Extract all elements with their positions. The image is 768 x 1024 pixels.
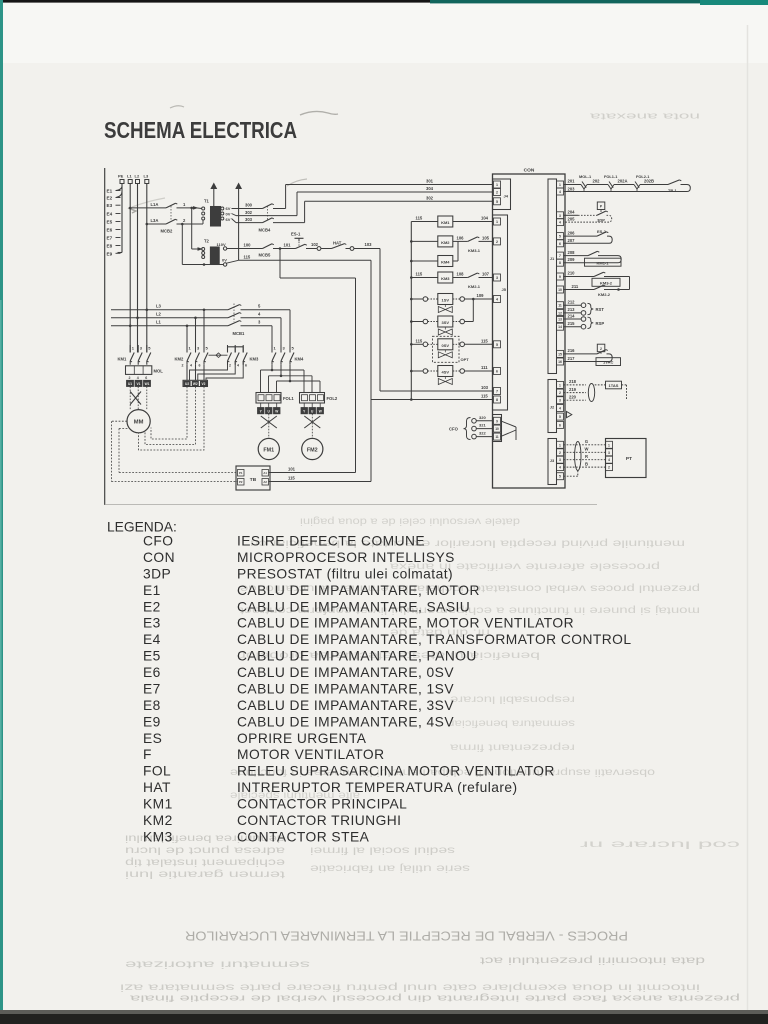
connector J5 — [493, 215, 508, 410]
svg-text:E4: E4 — [143, 632, 161, 647]
wire left border bus — [104, 168, 106, 505]
svg-text:2: 2 — [559, 391, 561, 395]
svg-text:TR-1: TR-1 — [668, 188, 677, 193]
svg-text:sediul social al firmei: sediul social al firmei — [310, 845, 455, 856]
fan cable cross E3 FM2 — [304, 416, 320, 428]
svg-text:P1: P1 — [239, 471, 243, 475]
svg-text:303: 303 — [245, 217, 253, 222]
svg-text:RELEU SUPRASARCINA MOTOR VENTI: RELEU SUPRASARCINA MOTOR VENTILATOR — [237, 764, 555, 779]
svg-text:W: W — [275, 410, 278, 414]
interlock KM2-KM3 — [209, 354, 228, 356]
svg-text:CABLU DE IMPAMANTARE, 4SV: CABLU DE IMPAMANTARE, 4SV — [237, 714, 454, 729]
breaker MCB1 pole L3 — [228, 305, 240, 310]
breaker MCB4 pole 2 — [263, 218, 273, 223]
svg-text:1: 1 — [559, 383, 561, 387]
svg-text:207: 207 — [568, 238, 576, 243]
contactor KM1 — [129, 345, 131, 353]
wire L1A — [129, 207, 132, 210]
svg-text:CABLU DE IMPAMANTARE, MOTOR: CABLU DE IMPAMANTARE, MOTOR — [237, 583, 480, 598]
connector J1 — [548, 179, 557, 374]
svg-text:INTRERUPTOR TEMPERATURA (reful: INTRERUPTOR TEMPERATURA (refulare) — [237, 780, 518, 795]
svg-text:3DP: 3DP — [597, 217, 605, 222]
wire 304 to CON J4 pin 2 — [296, 192, 298, 216]
svg-text:R: R — [585, 454, 588, 459]
contact KM2-1 — [468, 273, 478, 278]
wire L3 power row — [111, 309, 228, 311]
svg-text:MOL-1: MOL-1 — [579, 174, 592, 179]
svg-text:KM2: KM2 — [441, 240, 450, 245]
svg-text:8: 8 — [559, 261, 561, 265]
svg-text:KM3: KM3 — [250, 357, 260, 362]
svg-text:MCB5: MCB5 — [259, 253, 272, 258]
svg-text:4: 4 — [559, 407, 561, 411]
wire T2 primary feed 2 — [181, 223, 184, 226]
svg-text:U1: U1 — [128, 382, 132, 386]
svg-text:intocmit in doua exemplare cat: intocmit in doua exemplare cate unul pen… — [120, 982, 700, 993]
svg-text:B: B — [585, 462, 588, 467]
svg-text:HAT: HAT — [143, 780, 171, 795]
svg-text:201: 201 — [568, 179, 576, 184]
svg-text:6: 6 — [199, 363, 201, 367]
svg-text:L2: L2 — [135, 174, 140, 179]
svg-text:210: 210 — [568, 271, 576, 276]
star bridge KM3 — [228, 347, 244, 353]
svg-text:E3: E3 — [107, 203, 113, 208]
scanner left teal strip — [0, 0, 3, 1024]
wire 302 to CON J4 pin 5 — [304, 201, 306, 222]
svg-text:reprezentant firma: reprezentant firma — [450, 741, 575, 753]
wire bottom routing line — [105, 504, 597, 506]
wire 101 routing down to TB — [279, 249, 281, 279]
svg-text:106: 106 — [457, 236, 465, 241]
svg-text:9: 9 — [496, 419, 498, 423]
svg-text:KM1-1: KM1-1 — [596, 260, 609, 265]
connector CFO pins — [493, 415, 502, 442]
svg-text:9: 9 — [559, 275, 561, 279]
wire 111 to CON — [465, 370, 494, 372]
svg-text:E4: E4 — [107, 212, 113, 217]
wire CFO merge — [501, 421, 517, 427]
svg-text:202B: 202B — [644, 179, 654, 184]
svg-text:CABLU DE IMPAMANTARE, 0SV: CABLU DE IMPAMANTARE, 0SV — [237, 665, 454, 680]
breaker MCB2 pole 1 — [166, 203, 176, 208]
overload relay FOL1 — [256, 393, 281, 404]
terminal block U2 W2 V2 — [183, 380, 208, 386]
delta connection dashed wires — [151, 387, 187, 440]
svg-text:1: 1 — [496, 183, 498, 187]
svg-text:PT: PT — [626, 456, 632, 462]
svg-text:0V: 0V — [226, 212, 231, 217]
node PE terminal — [120, 180, 124, 184]
svg-text:CFO: CFO — [143, 534, 173, 549]
wire 109 to CON — [465, 298, 494, 300]
ground symbol 0V line — [238, 186, 240, 261]
wire 302 crossover — [232, 214, 237, 216]
svg-text:KM4: KM4 — [441, 260, 450, 265]
svg-text:208: 208 — [568, 250, 576, 255]
node 102 — [306, 248, 317, 250]
svg-text:115: 115 — [416, 216, 423, 221]
svg-text:6V: 6V — [226, 217, 231, 222]
svg-text:5: 5 — [559, 475, 561, 479]
contact TR-1 — [640, 184, 668, 186]
wire L3 vertical — [146, 184, 148, 353]
svg-text:E9: E9 — [143, 714, 161, 729]
svg-text:215: 215 — [568, 321, 576, 326]
svg-text:termen garantie luni: termen garantie luni — [125, 869, 285, 880]
svg-text:CABLU DE IMPAMANTARE, 3SV: CABLU DE IMPAMANTARE, 3SV — [237, 698, 454, 713]
svg-text:E1: E1 — [143, 583, 161, 598]
svg-text:1VAC: 1VAC — [603, 360, 613, 365]
svg-text:10: 10 — [495, 427, 499, 431]
wire L2 power row — [111, 317, 228, 319]
svg-text:206: 206 — [568, 230, 576, 235]
svg-text:15: 15 — [558, 352, 562, 356]
diode J2 pin5 — [567, 412, 572, 418]
wire 301 to CON J4 pin 1 — [262, 215, 297, 217]
wire T1 primary link — [197, 207, 202, 210]
svg-text:adresa punct de lucru: adresa punct de lucru — [125, 845, 285, 856]
relay coil KM4 — [411, 260, 438, 262]
temperature probe PT wiring — [564, 444, 606, 446]
svg-text:16: 16 — [558, 360, 562, 364]
svg-text:TB: TB — [250, 477, 257, 483]
output CFO — [472, 419, 477, 424]
svg-text:prezenta anexa face parte inte: prezenta anexa face parte integranta din… — [129, 993, 740, 1004]
overload relay MOL — [126, 366, 152, 375]
svg-text:211: 211 — [572, 284, 579, 289]
node L3 terminal — [145, 180, 149, 184]
svg-text:semnaturi autorizate: semnaturi autorizate — [125, 958, 310, 970]
breaker MCB4 pole 1 — [263, 204, 273, 209]
svg-text:PRESOSTAT (filtru ulei colmata: PRESOSTAT (filtru ulei colmatat) — [237, 566, 453, 581]
wire KM2 pole bottoms to terminals — [186, 365, 188, 381]
wire 115 TB to routing — [269, 481, 372, 483]
svg-text:RSP: RSP — [596, 321, 605, 326]
svg-text:205: 205 — [568, 217, 576, 222]
svg-text:MCB1: MCB1 — [233, 331, 246, 336]
svg-text:J4: J4 — [504, 194, 509, 199]
svg-text:IESIRE DEFECTE COMUNE: IESIRE DEFECTE COMUNE — [237, 534, 425, 549]
node L1 terminal — [128, 180, 132, 184]
svg-text:4SV: 4SV — [442, 370, 450, 375]
svg-text:E3: E3 — [143, 616, 161, 631]
motor MM — [127, 410, 150, 433]
node 101 — [279, 247, 282, 250]
svg-text:1: 1 — [559, 443, 561, 447]
svg-text:302: 302 — [426, 196, 434, 201]
svg-text:serie utilaj an fabricatie: serie utilaj an fabricatie — [309, 863, 470, 874]
svg-text:7: 7 — [559, 254, 561, 258]
svg-text:204: 204 — [568, 210, 576, 215]
relay coil KM2 — [411, 240, 438, 242]
svg-text:E7: E7 — [107, 236, 113, 241]
svg-text:3SV: 3SV — [442, 320, 450, 325]
scanner bottom bar — [0, 1013, 768, 1024]
svg-text:218: 218 — [569, 379, 577, 384]
wire 203 return — [564, 185, 691, 192]
svg-text:KM3: KM3 — [143, 829, 173, 844]
svg-text:CON: CON — [524, 167, 535, 173]
wire PE down — [121, 184, 123, 253]
svg-text:11: 11 — [495, 435, 499, 439]
svg-text:108: 108 — [457, 272, 465, 277]
svg-text:216: 216 — [568, 348, 576, 353]
wire E2 hook to PE — [116, 192, 122, 198]
svg-text:3DP: 3DP — [143, 566, 171, 581]
svg-text:U2: U2 — [185, 382, 189, 386]
wire 303 — [236, 222, 263, 224]
wire MCB1 out 4 down to KM4 — [280, 318, 282, 353]
svg-text:SCHEMA ELECTRICA: SCHEMA ELECTRICA — [104, 117, 297, 143]
breaker MCB1 pole L2 — [228, 313, 240, 318]
svg-text:321: 321 — [479, 423, 486, 428]
svg-text:7: 7 — [496, 390, 498, 394]
svg-text:320: 320 — [479, 415, 486, 420]
svg-text:6V: 6V — [226, 206, 231, 211]
svg-text:111: 111 — [481, 365, 488, 370]
svg-text:OPRIRE URGENTA: OPRIRE URGENTA — [237, 731, 367, 746]
svg-text:E8: E8 — [143, 698, 161, 713]
svg-text:100: 100 — [244, 243, 252, 248]
svg-text:responsabil lucrare: responsabil lucrare — [450, 693, 575, 705]
svg-text:FOL2: FOL2 — [327, 396, 338, 401]
wire 3SV up to 109 — [465, 321, 474, 323]
svg-text:115: 115 — [288, 476, 295, 481]
svg-text:W: W — [585, 447, 589, 452]
terminal block TB — [236, 466, 270, 490]
terminals Y U W fan motor 2 — [301, 408, 308, 414]
svg-text:CFO: CFO — [449, 427, 459, 432]
svg-text:E6: E6 — [143, 665, 161, 680]
wire 300 — [232, 208, 263, 210]
svg-text:220: 220 — [569, 395, 577, 400]
connector J4 — [493, 179, 511, 210]
svg-text:2: 2 — [496, 240, 498, 244]
svg-text:E2: E2 — [143, 599, 161, 614]
svg-text:V1: V1 — [137, 382, 141, 386]
svg-text:322: 322 — [479, 431, 486, 436]
svg-text:KM3: KM3 — [441, 276, 450, 281]
svg-text:115: 115 — [481, 339, 488, 344]
svg-text:12: 12 — [558, 311, 562, 315]
svg-text:W1: W1 — [145, 382, 150, 386]
optional dashed box OPT — [433, 336, 460, 362]
svg-text:101: 101 — [284, 242, 292, 247]
svg-text:FOL: FOL — [143, 764, 171, 779]
svg-text:CABLU DE IMPAMANTARE, TRANSFOR: CABLU DE IMPAMANTARE, TRANSFORMATOR CONT… — [237, 632, 631, 647]
fan motor FM1 — [258, 438, 279, 459]
wire 101 TB to routing — [269, 472, 356, 474]
svg-text:104: 104 — [481, 216, 489, 221]
svg-text:107: 107 — [482, 272, 490, 277]
probe PT — [606, 439, 647, 478]
svg-text:304: 304 — [426, 186, 434, 191]
svg-text:CABLU DE IMPAMANTARE, PANOU: CABLU DE IMPAMANTARE, PANOU — [237, 649, 477, 664]
input RST — [564, 304, 582, 306]
svg-text:semnatura beneficiar: semnatura beneficiar — [449, 717, 575, 729]
faint smudges top-left — [170, 106, 184, 108]
svg-text:KM3-2: KM3-2 — [600, 281, 613, 286]
svg-text:2: 2 — [229, 363, 231, 367]
wire 103 to CON pin 7 — [380, 390, 493, 392]
svg-text:MOL: MOL — [154, 369, 164, 374]
svg-text:101: 101 — [288, 467, 296, 472]
svg-text:2: 2 — [559, 451, 561, 455]
svg-text:E6: E6 — [107, 228, 113, 233]
svg-text:KM4: KM4 — [295, 357, 305, 362]
svg-text:echipament instalat tip: echipament instalat tip — [124, 857, 285, 868]
svg-text:FM2: FM2 — [307, 448, 318, 454]
svg-text:MICROPROCESOR INTELLISYS: MICROPROCESOR INTELLISYS — [237, 550, 455, 565]
fan cable cross E3 FM1 — [261, 416, 277, 428]
svg-text:212: 212 — [568, 300, 576, 305]
wire 115 down — [370, 260, 372, 481]
svg-text:LEGENDA:: LEGENDA: — [107, 520, 177, 535]
svg-text:202: 202 — [593, 179, 601, 184]
svg-text:CON: CON — [143, 550, 175, 565]
svg-text:F: F — [143, 747, 152, 762]
svg-text:E2: E2 — [107, 196, 113, 201]
svg-text:KM1: KM1 — [143, 797, 173, 812]
wire MCB1 out 3 down to KM4 — [271, 326, 273, 353]
legend rows — [143, 534, 631, 845]
svg-text:5: 5 — [496, 343, 498, 347]
svg-text:8: 8 — [496, 398, 498, 402]
svg-text:4: 4 — [559, 190, 561, 194]
svg-text:L1: L1 — [127, 174, 132, 179]
wire 100 — [227, 248, 263, 250]
svg-text:E1: E1 — [107, 189, 113, 194]
breaker MCB1 pole L1 — [228, 321, 240, 326]
terminals U1 V1 W1 — [127, 380, 134, 386]
wire KM3 to KM2 terminals — [190, 361, 228, 380]
contactor KM2 — [186, 345, 188, 353]
svg-text:W2: W2 — [193, 382, 198, 386]
ghost bleed-through text (verso page) — [120, 111, 740, 1004]
svg-text:E7: E7 — [143, 682, 161, 697]
svg-text:301: 301 — [426, 179, 434, 184]
svg-text:300: 300 — [245, 203, 253, 208]
svg-text:A2: A2 — [263, 480, 267, 484]
svg-text:2: 2 — [496, 191, 498, 195]
svg-text:T1: T1 — [204, 199, 210, 204]
svg-text:4: 4 — [137, 376, 139, 380]
wire KM4 fan-out to FOL1 FOL2 — [271, 365, 273, 370]
svg-text:FM1: FM1 — [263, 448, 274, 454]
wire 115 valve to CON — [465, 343, 494, 345]
svg-text:110V: 110V — [217, 242, 226, 247]
svg-text:ES-1: ES-1 — [291, 231, 301, 236]
svg-text:KM2-1: KM2-1 — [468, 284, 481, 289]
svg-text:L1A: L1A — [151, 202, 159, 207]
svg-text:4: 4 — [190, 363, 192, 367]
svg-text:KM3-1: KM3-1 — [468, 248, 481, 253]
svg-text:103: 103 — [481, 385, 489, 390]
svg-text:4: 4 — [608, 458, 610, 462]
svg-text:A1: A1 — [263, 471, 267, 475]
svg-text:0V: 0V — [222, 257, 227, 262]
svg-text:E9: E9 — [107, 251, 113, 256]
svg-text:RST: RST — [596, 307, 605, 312]
fan motor FM2 — [302, 438, 323, 459]
svg-text:2: 2 — [182, 363, 184, 367]
input RSP — [564, 318, 582, 320]
svg-text:MOTOR VENTILATOR: MOTOR VENTILATOR — [237, 747, 385, 762]
svg-text:J2: J2 — [550, 405, 555, 410]
svg-text:1SV: 1SV — [442, 298, 450, 303]
svg-text:1: 1 — [496, 220, 498, 224]
wire KM2 feeds — [186, 326, 188, 345]
svg-text:PROCES - VERBAL DE RECEPTIE LA: PROCES - VERBAL DE RECEPTIE LA TERMINARE… — [185, 929, 628, 944]
node 103 — [354, 248, 380, 250]
svg-text:3: 3 — [559, 458, 561, 462]
svg-text:2: 2 — [608, 466, 610, 470]
svg-text:5: 5 — [496, 200, 498, 204]
svg-text:CABLU DE IMPAMANTARE, MOTOR VE: CABLU DE IMPAMANTARE, MOTOR VENTILATOR — [237, 616, 574, 631]
svg-text:6: 6 — [559, 242, 561, 246]
svg-text:105: 105 — [482, 236, 490, 241]
contact KM3-1 — [468, 237, 478, 242]
svg-text:302: 302 — [245, 210, 253, 215]
overload relay FOL2 — [300, 393, 325, 404]
svg-text:3: 3 — [496, 276, 498, 280]
svg-text:3: 3 — [608, 451, 610, 455]
svg-text:CONTACTOR PRINCIPAL: CONTACTOR PRINCIPAL — [237, 797, 407, 812]
svg-text:4: 4 — [496, 298, 498, 302]
node L2 terminal — [136, 180, 140, 184]
wire 103 down to CON — [379, 249, 381, 392]
svg-text:L2: L2 — [156, 312, 162, 317]
svg-text:MCB2: MCB2 — [161, 229, 174, 234]
svg-text:1: 1 — [559, 183, 561, 187]
svg-text:cod lucrare nr: cod lucrare nr — [578, 839, 740, 850]
svg-text:10: 10 — [558, 288, 562, 292]
svg-text:203: 203 — [568, 187, 576, 192]
wire L2 vertical — [137, 184, 139, 353]
scanner top bar — [0, 0, 768, 3]
svg-text:PE: PE — [118, 174, 124, 179]
svg-text:213: 213 — [568, 307, 576, 312]
svg-text:6: 6 — [496, 370, 498, 374]
svg-text:103: 103 — [365, 242, 373, 247]
svg-text:W: W — [319, 410, 322, 414]
svg-text:2: 2 — [600, 347, 602, 351]
wire E1 hook to PE — [116, 187, 122, 191]
svg-text:MCB4: MCB4 — [259, 228, 272, 233]
svg-text:11: 11 — [558, 304, 562, 308]
svg-text:L3A: L3A — [151, 218, 159, 223]
svg-text:217: 217 — [568, 356, 576, 361]
svg-text:0SV: 0SV — [442, 343, 450, 348]
ground dashed wires motor to TB — [111, 420, 127, 422]
svg-text:G: G — [585, 439, 588, 444]
svg-text:KM1: KM1 — [441, 220, 450, 225]
svg-text:1TAS: 1TAS — [609, 383, 619, 388]
svg-text:109: 109 — [477, 293, 485, 298]
svg-text:115: 115 — [481, 394, 488, 399]
svg-text:L3: L3 — [144, 174, 149, 179]
svg-text:6: 6 — [559, 423, 561, 427]
svg-text:4: 4 — [559, 466, 561, 470]
svg-text:115: 115 — [416, 272, 423, 277]
contactor KM4 — [271, 345, 273, 353]
solenoid valve 3SV — [411, 321, 423, 323]
svg-text:P2: P2 — [239, 480, 243, 484]
svg-text:14: 14 — [558, 325, 562, 329]
svg-text:data intocmirii prezentului ac: data intocmirii prezentului act — [480, 954, 705, 966]
contactor KM3 — [227, 345, 229, 353]
